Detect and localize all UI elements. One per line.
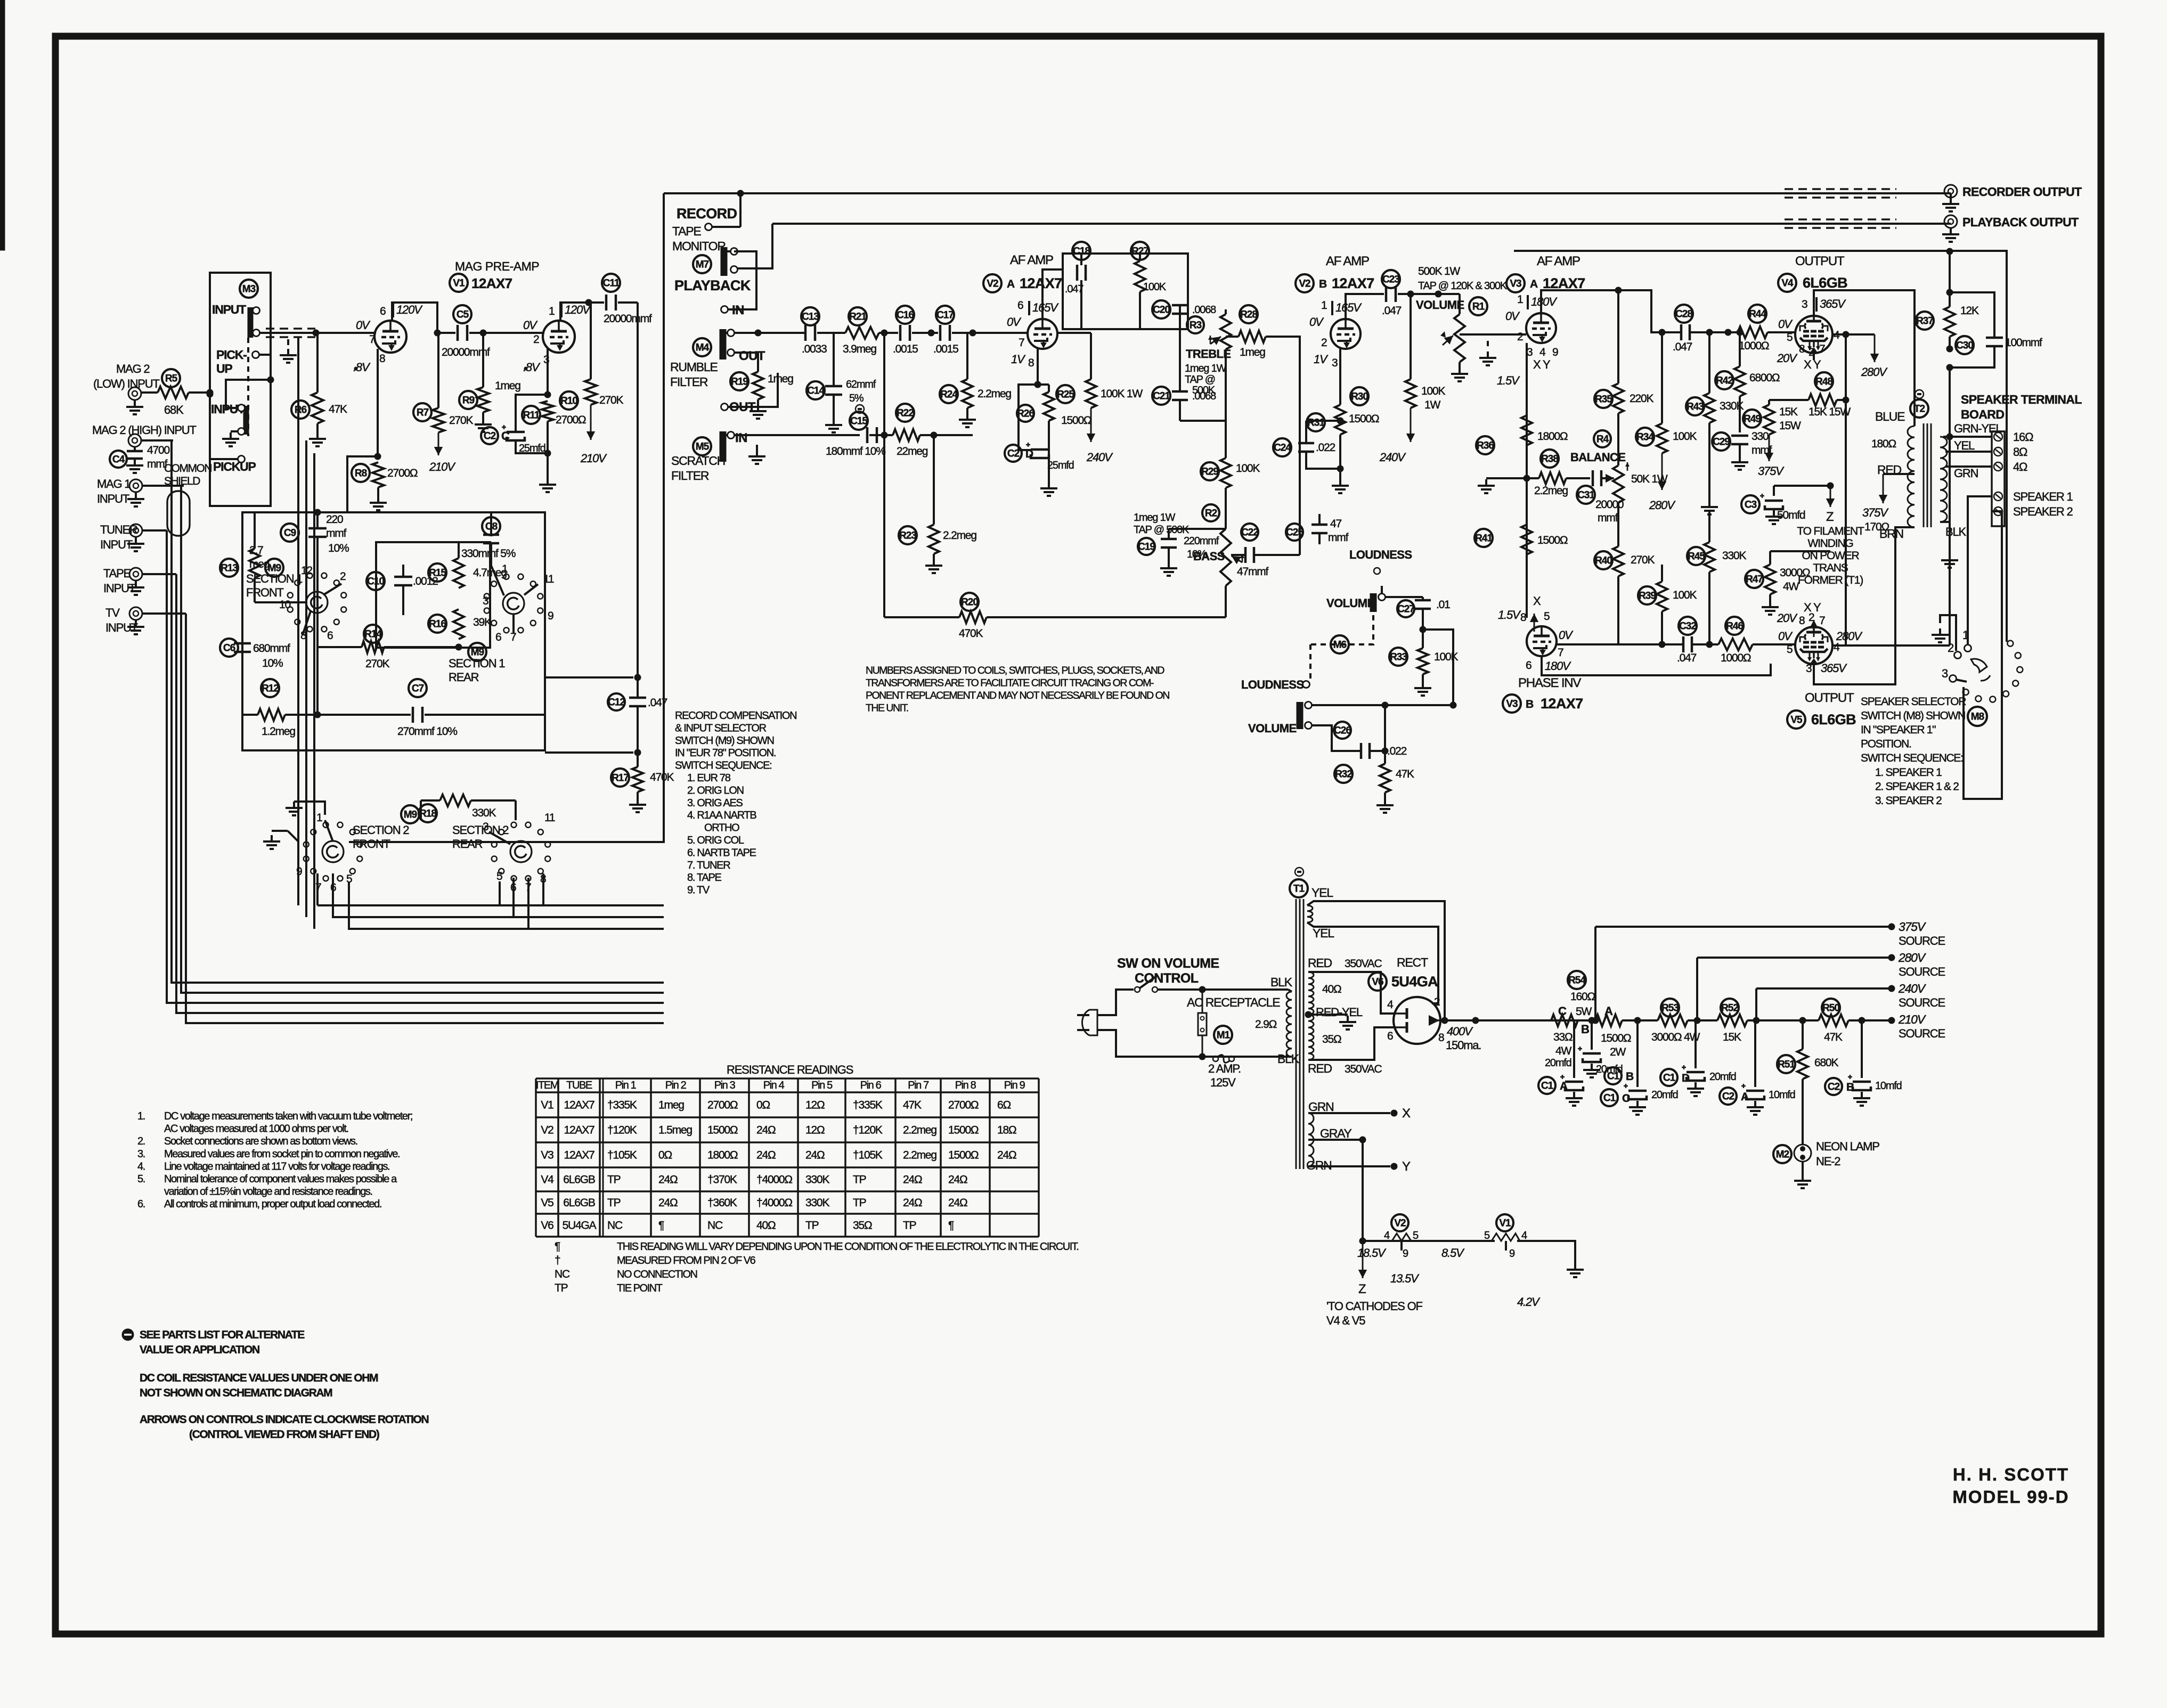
label COMMON SHIELD <box>164 462 211 487</box>
svg-text:270mmf 10%: 270mmf 10% <box>397 725 457 738</box>
svg-text:Pin 3: Pin 3 <box>714 1080 736 1091</box>
label 2 AMP 125V <box>1208 1062 1241 1089</box>
svg-text:T1: T1 <box>1293 883 1305 894</box>
label .8V (V1a) <box>353 361 371 374</box>
terminal bar volume lower <box>1297 702 1304 729</box>
svg-text:6L6GB: 6L6GB <box>563 1174 595 1186</box>
svg-text:BRN: BRN <box>1879 527 1903 541</box>
svg-text:2: 2 <box>1321 337 1327 349</box>
svg-text:1.5V: 1.5V <box>1497 374 1520 387</box>
svg-text:160Ω: 160Ω <box>1570 991 1595 1003</box>
label SECTION 1 REAR <box>449 657 505 684</box>
svg-text:SOURCE: SOURCE <box>1899 1027 1945 1040</box>
contact lower input upper <box>226 377 274 412</box>
svg-text:.047: .047 <box>1065 283 1083 295</box>
svg-text:20000mmf: 20000mmf <box>604 313 652 325</box>
svg-text:C19: C19 <box>1138 541 1155 552</box>
resistor R34 <box>1636 329 1697 512</box>
svg-text:1500Ω: 1500Ω <box>1061 414 1091 427</box>
svg-text:35Ω: 35Ω <box>853 1220 872 1232</box>
svg-text:R29: R29 <box>1201 466 1218 477</box>
text speaker selector legend <box>1861 696 1966 807</box>
designator M5 <box>693 437 711 455</box>
svg-text:7: 7 <box>1819 343 1825 355</box>
svg-text:BLUE: BLUE <box>1875 410 1905 423</box>
svg-text:C1: C1 <box>1663 1072 1676 1083</box>
label 4.2V <box>1517 1295 1541 1309</box>
wire chain1 <box>1622 1017 1658 1024</box>
svg-text:375V: 375V <box>1862 506 1889 519</box>
svg-text:R49: R49 <box>1744 413 1761 424</box>
svg-text:AF AMP: AF AMP <box>1010 253 1053 267</box>
label BLK T2 <box>1940 522 1967 568</box>
resistor R51 <box>1777 1020 1838 1142</box>
svg-text:R47: R47 <box>1746 574 1763 585</box>
board screws <box>1994 432 2002 516</box>
svg-text:C12: C12 <box>608 697 625 708</box>
triode V3A <box>1526 313 1556 343</box>
resistor R19 <box>730 353 793 419</box>
svg-text:150ma.: 150ma. <box>1446 1039 1481 1052</box>
wire grid rail from M3 <box>259 332 376 334</box>
svg-text:6L6GB: 6L6GB <box>563 1197 595 1209</box>
pin 6 V3B <box>1526 659 1531 672</box>
label 365V V4 <box>1816 297 1846 312</box>
svg-text:V2: V2 <box>1394 1217 1406 1229</box>
svg-text:YEL: YEL <box>1954 439 1975 452</box>
svg-text:Line voltage maintained at 117: Line voltage maintained at 117 volts for… <box>164 1161 389 1172</box>
label 1.5V V3A <box>1497 374 1520 387</box>
wire bass to R20 <box>1225 593 1227 617</box>
label VOLUME upper <box>1326 596 1375 610</box>
balance pot R4 <box>1606 462 1668 503</box>
svg-text:1.2meg: 1.2meg <box>262 725 295 738</box>
svg-text:Pin 6: Pin 6 <box>860 1080 882 1091</box>
pin 4 V1h <box>1521 1230 1527 1241</box>
wire V1b plate <box>560 299 592 321</box>
svg-text:R54: R54 <box>1568 975 1586 986</box>
svg-text:R39: R39 <box>1639 590 1656 601</box>
svg-text:1: 1 <box>1321 299 1327 312</box>
svg-text:47: 47 <box>1330 518 1341 530</box>
svg-text:R12: R12 <box>262 683 279 694</box>
svg-text:& INPUT SELECTOR: & INPUT SELECTOR <box>675 722 767 734</box>
label Z bottom <box>1358 1282 1366 1296</box>
resistor R54 C part <box>1551 1015 1578 1057</box>
resistor R32 <box>1334 751 1414 813</box>
svg-text:180mmf 10%: 180mmf 10% <box>826 445 885 457</box>
svg-text:3.: 3. <box>137 1148 145 1160</box>
svg-text:.047: .047 <box>1673 341 1692 353</box>
svg-text:FRONT: FRONT <box>246 586 284 599</box>
svg-text:15W: 15W <box>1779 420 1801 432</box>
svg-text:A: A <box>1741 1091 1749 1103</box>
wire sw to coil <box>1202 988 1288 991</box>
pin 8 s2r <box>540 873 546 885</box>
svg-text:9: 9 <box>1509 1248 1515 1260</box>
capacitor C4 <box>110 444 169 473</box>
svg-text:C21: C21 <box>1153 390 1170 402</box>
designator M1 <box>1214 1026 1232 1044</box>
resistor R42 <box>1715 329 1780 433</box>
svg-text:mmf: mmf <box>1598 512 1618 524</box>
svg-text:24Ω: 24Ω <box>903 1174 922 1186</box>
wire 280 up <box>1696 958 1698 1020</box>
svg-text:Z: Z <box>1358 1282 1366 1296</box>
svg-text:375V: 375V <box>1758 464 1785 478</box>
pin label 2 <box>533 333 539 346</box>
wire bundle vertical B <box>181 486 664 993</box>
label INPUT (lower) <box>211 402 245 416</box>
V2 filament <box>1392 1233 1495 1241</box>
pins 8 5 V3B <box>1520 610 1550 624</box>
svg-text:2.9Ω: 2.9Ω <box>1255 1018 1277 1031</box>
svg-text:4.2V: 4.2V <box>1517 1295 1541 1309</box>
contact OUT scratch <box>721 373 778 411</box>
contact M4 lower <box>728 349 735 356</box>
wire C16 junction down <box>881 333 888 439</box>
svg-text:R42: R42 <box>1716 375 1733 386</box>
svg-text:125V: 125V <box>1210 1076 1236 1089</box>
designator T1 <box>1290 868 1308 897</box>
svg-text:1. EUR 78: 1. EUR 78 <box>687 772 731 784</box>
svg-text:C23: C23 <box>1382 274 1399 285</box>
pin 4 V6 <box>1387 999 1394 1011</box>
svg-text:'TO CATHODES OF: 'TO CATHODES OF <box>1326 1300 1422 1313</box>
svg-text:4: 4 <box>1521 1230 1527 1241</box>
capacitor C5 <box>437 305 490 358</box>
triode V2B <box>1331 319 1361 349</box>
svg-text:SECTION 2: SECTION 2 <box>353 823 409 837</box>
capacitor C1A <box>1538 1020 1583 1106</box>
wire hv bottom to V6 <box>1308 1027 1395 1060</box>
pin 3 V2B <box>1332 357 1338 369</box>
wire V4 plate <box>1814 290 1915 426</box>
svg-text:7: 7 <box>369 333 375 346</box>
svg-text:4700: 4700 <box>147 444 169 456</box>
T2 secondary winding <box>1940 437 1947 522</box>
svg-text:INPUT: INPUT <box>97 492 129 505</box>
capacitor C2C <box>481 425 545 454</box>
svg-text:†120K: †120K <box>607 1124 637 1137</box>
resistor R22 <box>893 404 973 457</box>
svg-text:10mfd: 10mfd <box>1769 1089 1795 1101</box>
pin 11 <box>543 573 554 585</box>
svg-text:†335K: †335K <box>607 1099 637 1112</box>
resistor R40 <box>1594 503 1655 644</box>
svg-text:1meg 1W: 1meg 1W <box>1185 363 1227 374</box>
svg-text:210V: 210V <box>580 452 607 465</box>
svg-text:100K: 100K <box>1673 430 1697 443</box>
contact loudness small <box>1374 568 1380 574</box>
svg-text:47K: 47K <box>329 403 347 415</box>
wire treble bottom to R29 <box>1225 421 1227 458</box>
ground s2f top <box>286 802 325 815</box>
resistor R35 <box>1594 287 1653 466</box>
resistor R45 <box>1687 511 1746 648</box>
terminal bar M5 <box>720 431 727 462</box>
svg-text:6L6GB: 6L6GB <box>1811 712 1856 728</box>
svg-text:Pin 7: Pin 7 <box>908 1080 929 1091</box>
svg-text:RUMBLE: RUMBLE <box>670 360 718 374</box>
svg-text:Y: Y <box>1402 1159 1411 1174</box>
svg-text:INPUT: INPUT <box>212 303 246 316</box>
svg-text:100K: 100K <box>1236 462 1260 475</box>
svg-text:C1: C1 <box>1603 1092 1616 1104</box>
capacitor C18 <box>1065 242 1090 329</box>
capacitor C6 <box>220 639 290 669</box>
wires below sec2 rear <box>500 873 543 929</box>
svg-text:R17: R17 <box>612 772 629 783</box>
svg-text:1500Ω: 1500Ω <box>1349 413 1379 425</box>
svg-text:25mfd: 25mfd <box>1047 460 1074 471</box>
label PICKUP <box>213 460 256 473</box>
svg-text:C2: C2 <box>484 430 496 442</box>
label 40ohm <box>1322 983 1341 995</box>
pin 4 V2h <box>1384 1230 1390 1241</box>
capacitor C8 <box>461 512 516 566</box>
pin 1 <box>502 563 508 575</box>
contact M7 lower <box>731 266 738 273</box>
svg-text:47K: 47K <box>1396 768 1414 780</box>
rotary switch M9 sec1 front <box>288 573 346 632</box>
pin 9 s2f <box>296 865 302 878</box>
svg-text:C11: C11 <box>603 277 620 289</box>
svg-text:24Ω: 24Ω <box>658 1197 678 1209</box>
resistor R48 <box>1769 334 1851 418</box>
beam tube V4 <box>1795 316 1832 353</box>
designator V2 A <box>983 274 1062 292</box>
svg-text:†335K: †335K <box>853 1099 883 1112</box>
label 180V V3B <box>1545 659 1571 673</box>
svg-text:6: 6 <box>1017 299 1023 312</box>
resistor R28 <box>1226 305 1300 358</box>
capacitor C10 <box>366 565 438 615</box>
pin 8 <box>300 630 306 642</box>
svg-text:SWITCH (M9) SHOWN: SWITCH (M9) SHOWN <box>675 735 774 747</box>
svg-text:M3: M3 <box>242 283 256 295</box>
svg-text:2W: 2W <box>1610 1046 1626 1058</box>
pin 1 s2f <box>316 812 333 841</box>
label bass tap <box>1134 512 1190 536</box>
wire plug to sw <box>1097 990 1134 1015</box>
svg-text:7: 7 <box>1819 615 1825 627</box>
svg-text:V5: V5 <box>541 1197 553 1209</box>
resistor R11 <box>522 401 586 426</box>
svg-text:R1: R1 <box>1472 301 1485 312</box>
svg-text:TAPE: TAPE <box>103 567 131 580</box>
label TAPE MONITOR <box>672 224 726 253</box>
svg-text:.022: .022 <box>1387 745 1407 757</box>
wire chain2 <box>1688 1017 1717 1024</box>
svg-text:X Y: X Y <box>1533 358 1551 371</box>
wire MAG2HIGH to bundle <box>142 439 173 442</box>
designator M8 <box>1968 707 1987 726</box>
svg-text:A: A <box>1530 278 1538 290</box>
svg-text:RECORD: RECORD <box>677 206 737 222</box>
label 0V (V1b) <box>523 318 538 332</box>
svg-text:V2: V2 <box>987 278 998 289</box>
AC plug <box>1077 1010 1097 1035</box>
svg-text:18.5V: 18.5V <box>1357 1246 1387 1260</box>
svg-text:V3: V3 <box>541 1149 553 1162</box>
wire pot wiper to V3A <box>1460 333 1526 336</box>
resistor R52 <box>1717 999 1747 1043</box>
label X Y V3A <box>1533 358 1551 371</box>
svg-text:1.5meg: 1.5meg <box>658 1124 692 1137</box>
svg-text:4: 4 <box>1834 641 1840 653</box>
svg-text:TIE POINT: TIE POINT <box>617 1282 663 1294</box>
capacitor C19 <box>1138 529 1226 576</box>
T2 primary tap <box>1862 474 1915 533</box>
pin label 1 <box>549 305 555 317</box>
svg-text:6.: 6. <box>137 1198 145 1210</box>
svg-text:C28: C28 <box>1675 308 1692 320</box>
label 240V SOURCE <box>1756 982 1945 1009</box>
svg-text:10%: 10% <box>1187 549 1207 560</box>
svg-text:2 AMP.: 2 AMP. <box>1208 1062 1241 1075</box>
pin 6b <box>495 631 501 643</box>
svg-text:¶: ¶ <box>948 1220 954 1232</box>
capacitor C32 <box>1677 617 1697 664</box>
svg-text:(LOW) INPUT: (LOW) INPUT <box>93 377 159 390</box>
contact M3 lower <box>253 330 260 337</box>
svg-text:C1: C1 <box>1607 1070 1620 1082</box>
pin 9 V2h <box>1402 1241 1408 1260</box>
label 4ohm <box>2013 460 2027 473</box>
svg-text:100mmf: 100mmf <box>2005 337 2042 349</box>
T1 hv center tap <box>1305 1011 1357 1030</box>
svg-text:VOLUME: VOLUME <box>1248 722 1297 735</box>
svg-text:4. R1AA NARTB: 4. R1AA NARTB <box>687 810 756 821</box>
label YEL 2 <box>1313 926 1334 940</box>
svg-text:VOLUME: VOLUME <box>1326 596 1375 610</box>
pin 6 V6 <box>1387 1030 1393 1042</box>
pin 3 V5 <box>1806 663 1812 675</box>
svg-text:V4: V4 <box>541 1174 554 1186</box>
svg-text:6: 6 <box>1526 659 1531 672</box>
label BLK top <box>1270 975 1293 989</box>
svg-text:B: B <box>1526 698 1534 710</box>
pin 8 V6 <box>1438 1032 1444 1044</box>
resistor R39 <box>1638 565 1697 648</box>
svg-text:MODEL 99-D: MODEL 99-D <box>1952 1487 2069 1507</box>
pin 8 V2A <box>1028 357 1034 369</box>
svg-text:1: 1 <box>1517 293 1523 306</box>
label TREBLE <box>1186 347 1231 361</box>
capacitor C9 <box>281 509 349 569</box>
capacitor C1B <box>1578 1017 1623 1078</box>
svg-text:C27: C27 <box>1397 603 1414 615</box>
svg-text:.0015: .0015 <box>933 343 958 355</box>
svg-text:Pin 5: Pin 5 <box>811 1080 833 1091</box>
svg-text:1V: 1V <box>1314 353 1329 366</box>
svg-text:POSITION.: POSITION. <box>1861 738 1911 750</box>
label PHASE INV <box>1518 676 1581 690</box>
wire V1a cathode <box>374 349 381 460</box>
svg-text:5: 5 <box>496 870 502 882</box>
svg-text:165V: 165V <box>1032 301 1059 314</box>
resistor R10 <box>560 303 623 465</box>
svg-text:9: 9 <box>296 865 302 878</box>
svg-text:T2: T2 <box>1914 403 1925 414</box>
capacitor C1D <box>1660 1020 1736 1096</box>
svg-text:4: 4 <box>1384 1230 1390 1241</box>
svg-text:1meg 1W: 1meg 1W <box>1134 512 1176 524</box>
label 1 M8 <box>1962 628 1969 642</box>
label 0V V5 <box>1778 630 1793 643</box>
T1 primary coil <box>1286 990 1292 1057</box>
svg-text:3: 3 <box>1942 667 1948 680</box>
svg-text:10: 10 <box>279 599 290 611</box>
svg-text:YEL: YEL <box>1313 926 1334 940</box>
wire box to treble col <box>1179 305 1181 329</box>
label LOUDNESS <box>1349 548 1412 561</box>
svg-text:2. SPEAKER 1 & 2: 2. SPEAKER 1 & 2 <box>1875 781 1959 793</box>
svg-text:R19: R19 <box>731 376 748 387</box>
label X Y V4 <box>1804 358 1821 371</box>
svg-text:C31: C31 <box>1577 489 1595 501</box>
T1 hv winding bottom <box>1308 1015 1314 1060</box>
svg-text:3: 3 <box>1802 298 1807 310</box>
contact M5 upper <box>724 432 735 439</box>
jack J-MAG1 <box>127 479 144 506</box>
label TAPE INPUT <box>103 567 136 595</box>
svg-text:PONENT REPLACEMENT AND MAY NOT: PONENT REPLACEMENT AND MAY NOT NECESSARI… <box>866 690 1169 701</box>
M8 rotor <box>1971 659 1990 681</box>
label X Y V5 <box>1804 601 1821 614</box>
svg-text:3.9meg: 3.9meg <box>843 343 876 355</box>
label 0V V3B <box>1559 628 1574 642</box>
ground M8 <box>1932 615 1956 651</box>
pin 9 <box>548 610 553 622</box>
svg-text:165V: 165V <box>1335 301 1362 314</box>
svg-text:2.7: 2.7 <box>249 544 263 557</box>
svg-text:0Ω: 0Ω <box>658 1149 672 1162</box>
V1 filament <box>1492 1233 1520 1241</box>
svg-text:15K: 15K <box>1723 1031 1741 1043</box>
svg-text:R11: R11 <box>523 410 540 421</box>
label 120V (V1a) <box>393 302 423 317</box>
svg-text:SWITCH SEQUENCE:: SWITCH SEQUENCE: <box>675 760 771 772</box>
svg-text:375V: 375V <box>1899 920 1927 934</box>
contact M8 2 <box>1948 641 1961 659</box>
wire M4 upper to grid rail <box>734 330 804 337</box>
svg-text:2.2meg: 2.2meg <box>977 388 1011 400</box>
svg-text:12AX7: 12AX7 <box>564 1149 594 1162</box>
svg-text:1000Ω: 1000Ω <box>1739 340 1769 352</box>
label Z arrow <box>1826 486 1835 524</box>
svg-text:47mmf: 47mmf <box>1237 566 1269 578</box>
svg-text:35Ω: 35Ω <box>1322 1033 1341 1045</box>
svg-text:C6: C6 <box>223 642 235 653</box>
svg-text:4W: 4W <box>1555 1045 1571 1057</box>
wire plug bottom <box>1097 1030 1288 1057</box>
capacitor C23 <box>1382 270 1460 317</box>
label 1.5V V3B <box>1498 608 1521 622</box>
svg-text:1: 1 <box>316 812 322 824</box>
capacitor C17 <box>933 306 1028 355</box>
ground R1 right <box>1479 341 1496 365</box>
svg-text:TREBLE: TREBLE <box>1186 347 1231 361</box>
wire Z vertical <box>1358 1140 1367 1278</box>
svg-text:0V: 0V <box>1559 628 1574 642</box>
svg-text:X: X <box>1402 1106 1411 1121</box>
resistor R26 <box>1017 385 1091 427</box>
svg-text:UP: UP <box>216 362 232 375</box>
label YEL top <box>1311 886 1333 900</box>
svg-text:BOARD: BOARD <box>1961 407 2004 421</box>
